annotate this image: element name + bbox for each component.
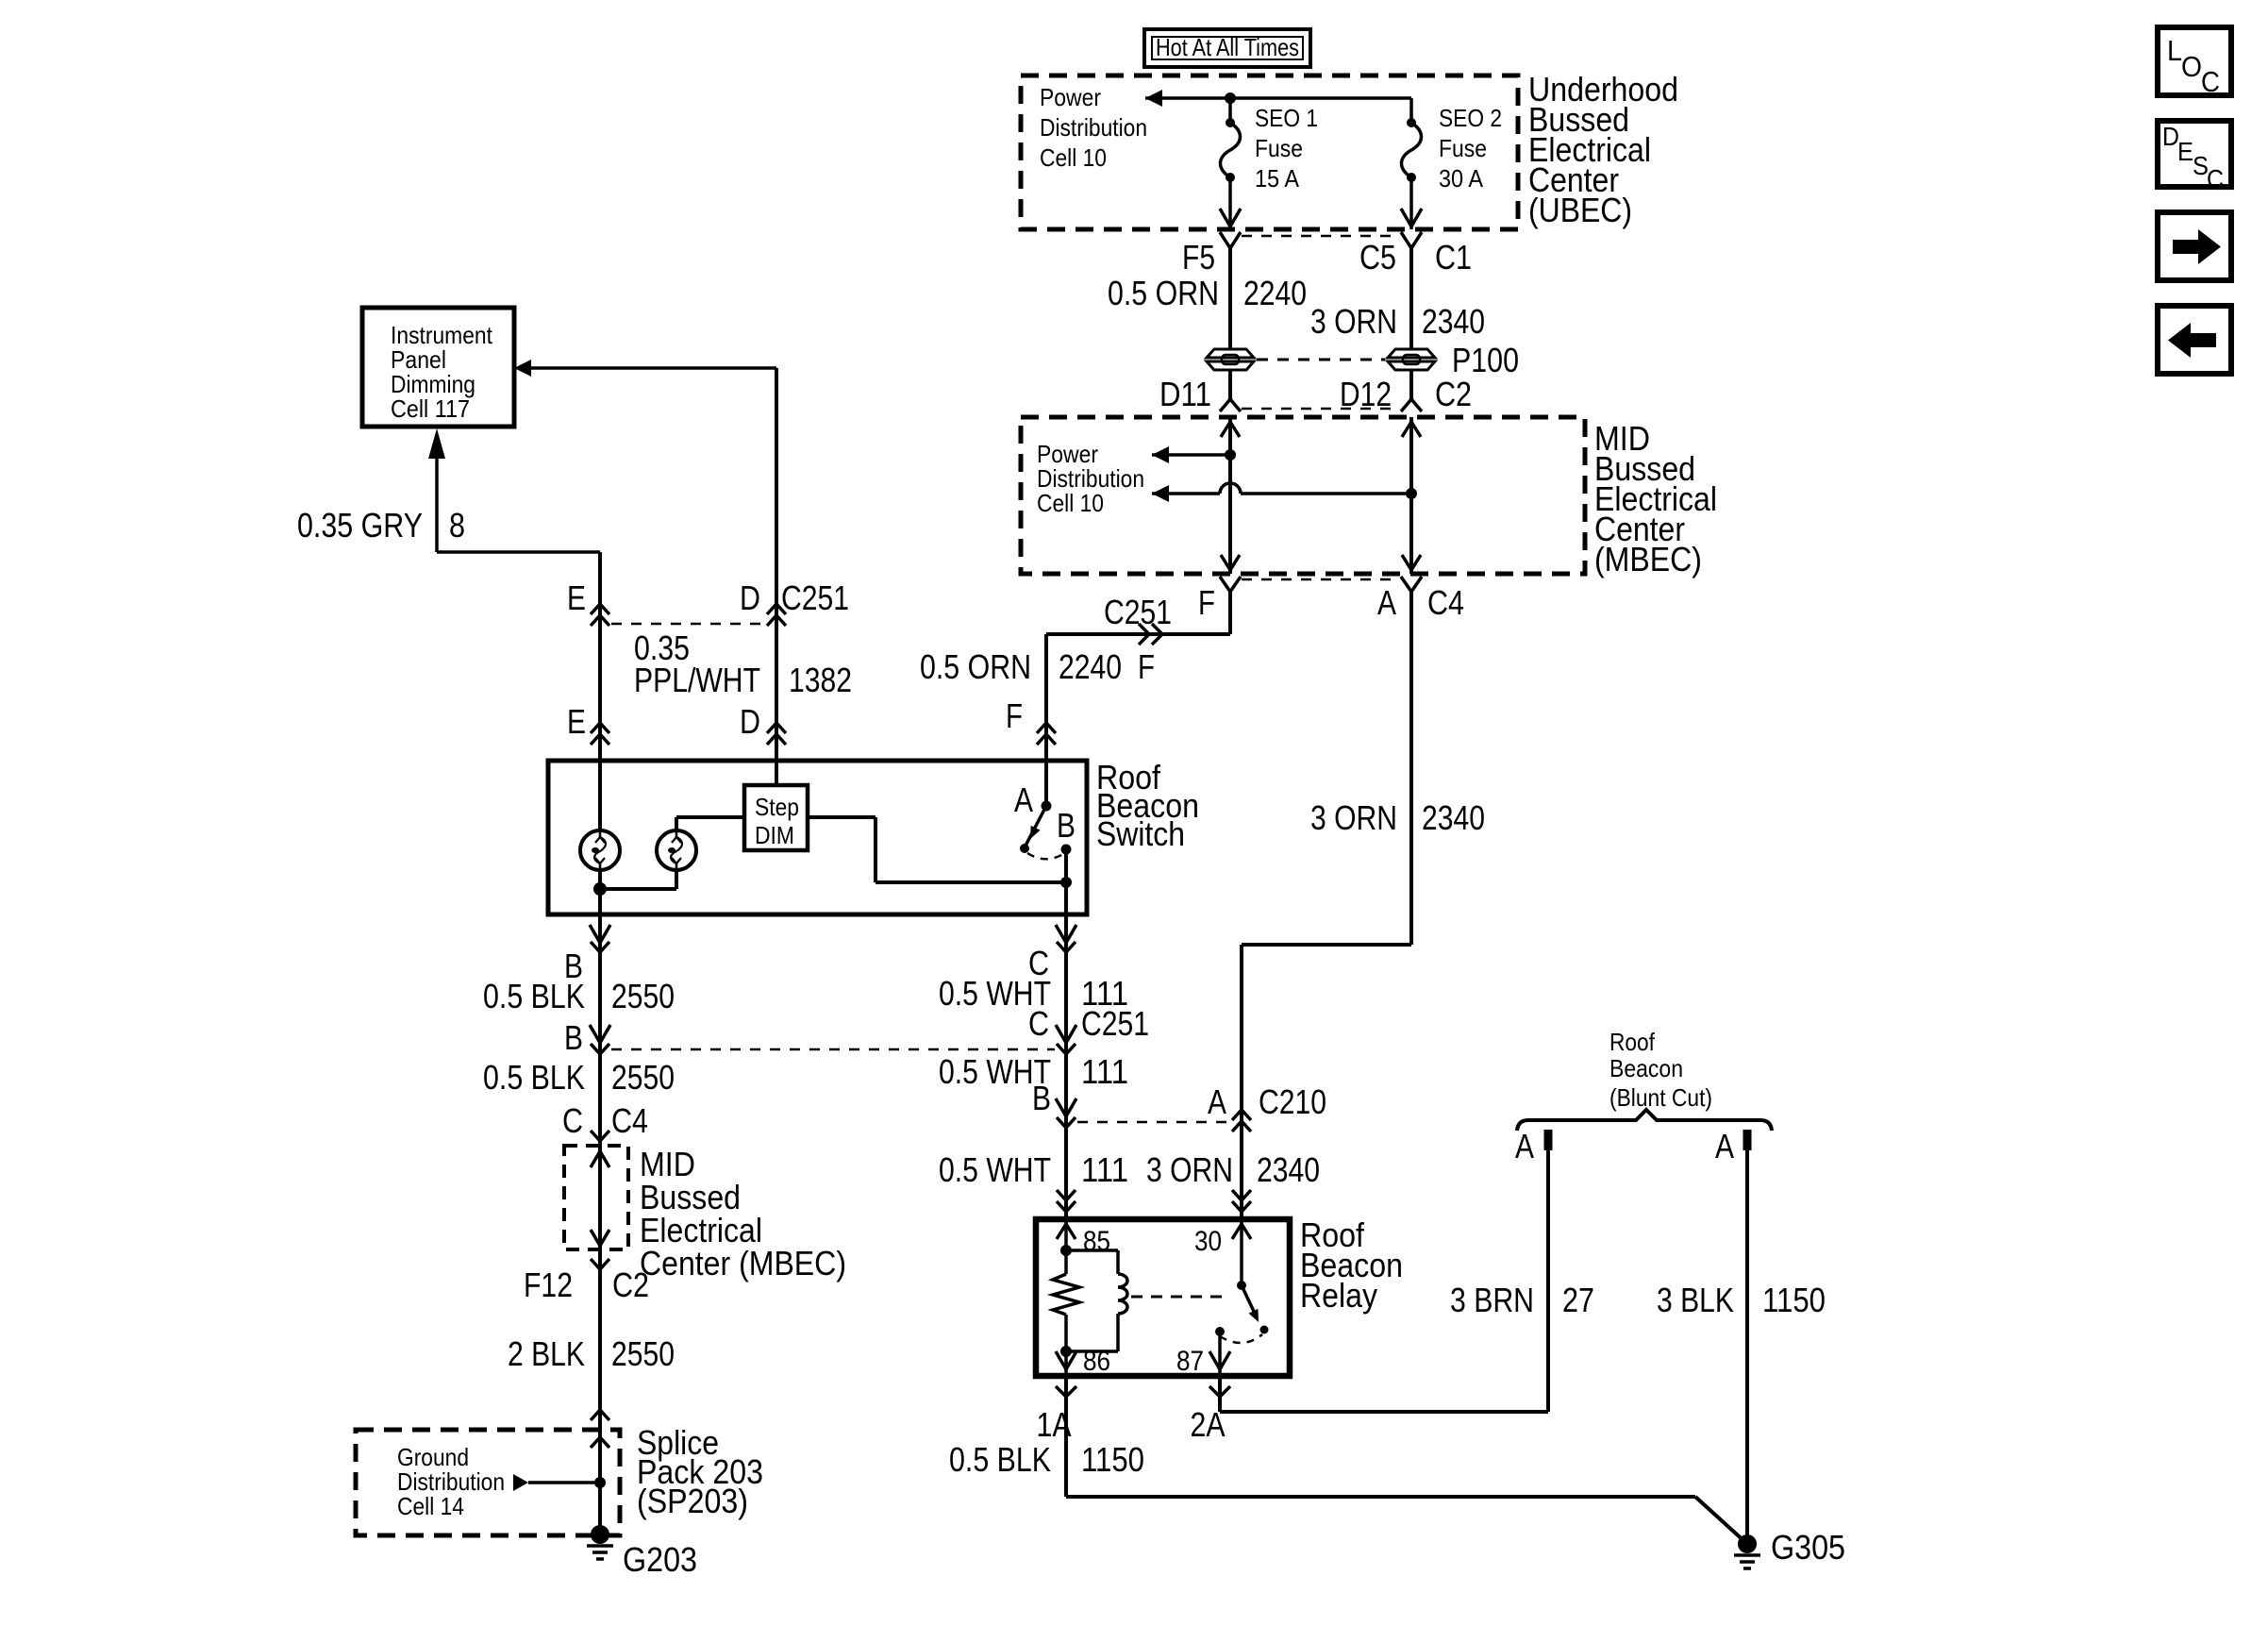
svg-text:1382: 1382 <box>789 661 852 699</box>
svg-text:3 BRN: 3 BRN <box>1450 1281 1534 1319</box>
svg-text:F5: F5 <box>1182 238 1215 277</box>
svg-text:0.5 BLK: 0.5 BLK <box>949 1440 1051 1479</box>
svg-text:Center (MBEC): Center (MBEC) <box>640 1244 846 1282</box>
svg-text:(MBEC): (MBEC) <box>1594 540 1702 578</box>
svg-text:A: A <box>1208 1082 1226 1121</box>
svg-text:3 BLK: 3 BLK <box>1657 1281 1734 1319</box>
svg-text:2340: 2340 <box>1257 1150 1320 1189</box>
svg-text:G305: G305 <box>1771 1528 1845 1567</box>
svg-text:C: C <box>2207 164 2224 193</box>
svg-text:2240: 2240 <box>1059 647 1122 686</box>
svg-text:L: L <box>2167 34 2182 67</box>
svg-text:2340: 2340 <box>1422 302 1485 341</box>
svg-text:Relay: Relay <box>1300 1276 1377 1315</box>
svg-text:C251: C251 <box>781 578 849 617</box>
svg-text:P100: P100 <box>1452 341 1519 379</box>
svg-text:0.35 GRY: 0.35 GRY <box>297 506 423 545</box>
svg-text:C4: C4 <box>611 1101 648 1140</box>
svg-text:C1: C1 <box>1435 238 1472 277</box>
svg-text:A: A <box>1014 780 1033 819</box>
svg-text:DIM: DIM <box>755 821 794 849</box>
svg-text:C210: C210 <box>1259 1082 1326 1121</box>
svg-text:Switch: Switch <box>1096 814 1185 853</box>
svg-text:C2: C2 <box>1435 375 1472 413</box>
svg-text:B: B <box>1057 806 1076 845</box>
svg-text:C: C <box>2201 65 2220 98</box>
svg-text:D11: D11 <box>1159 375 1211 413</box>
svg-text:A: A <box>1377 583 1396 622</box>
svg-text:111: 111 <box>1081 1052 1128 1091</box>
svg-text:B: B <box>564 1018 583 1057</box>
svg-text:G203: G203 <box>623 1540 697 1579</box>
svg-text:D: D <box>740 578 760 617</box>
svg-text:E: E <box>567 578 586 617</box>
svg-text:2550: 2550 <box>611 977 675 1015</box>
svg-text:(SP203): (SP203) <box>637 1482 748 1520</box>
svg-text:87: 87 <box>1176 1346 1204 1377</box>
svg-text:8: 8 <box>449 506 465 545</box>
svg-text:C5: C5 <box>1359 238 1396 277</box>
svg-text:3 ORN: 3 ORN <box>1310 302 1397 341</box>
svg-text:Fuse: Fuse <box>1439 134 1487 162</box>
svg-text:3 ORN: 3 ORN <box>1146 1150 1233 1189</box>
svg-text:PPL/WHT: PPL/WHT <box>634 661 760 699</box>
svg-text:Cell 10: Cell 10 <box>1037 489 1104 517</box>
svg-text:111: 111 <box>1081 1150 1128 1189</box>
svg-text:F: F <box>1138 647 1155 686</box>
svg-text:Distribution: Distribution <box>1040 113 1147 142</box>
svg-text:C4: C4 <box>1427 583 1464 622</box>
svg-text:15 A: 15 A <box>1255 164 1300 193</box>
svg-text:E: E <box>567 702 586 741</box>
svg-text:A: A <box>1515 1127 1534 1165</box>
svg-text:Step: Step <box>755 793 799 821</box>
svg-text:F: F <box>1006 696 1023 735</box>
svg-text:30 A: 30 A <box>1439 164 1484 193</box>
svg-text:Power: Power <box>1040 83 1101 111</box>
svg-text:(Blunt Cut): (Blunt Cut) <box>1609 1083 1712 1112</box>
svg-text:2 BLK: 2 BLK <box>508 1334 585 1373</box>
svg-text:SEO 2: SEO 2 <box>1439 104 1502 132</box>
svg-text:Beacon: Beacon <box>1609 1054 1683 1082</box>
svg-text:C: C <box>1028 1004 1049 1043</box>
svg-text:86: 86 <box>1083 1346 1110 1377</box>
svg-text:SEO 1: SEO 1 <box>1255 104 1318 132</box>
svg-text:(UBEC): (UBEC) <box>1528 191 1632 229</box>
svg-text:0.5 ORN: 0.5 ORN <box>920 647 1031 686</box>
svg-text:2340: 2340 <box>1422 798 1485 837</box>
svg-text:0.5 BLK: 0.5 BLK <box>483 1058 585 1097</box>
svg-text:2550: 2550 <box>611 1334 675 1373</box>
svg-text:B: B <box>1032 1079 1051 1117</box>
svg-text:Cell 14: Cell 14 <box>397 1492 464 1520</box>
svg-text:D: D <box>740 702 760 741</box>
svg-text:Roof: Roof <box>1609 1028 1656 1056</box>
svg-text:3 ORN: 3 ORN <box>1310 798 1397 837</box>
svg-text:E: E <box>2177 137 2193 166</box>
svg-text:85: 85 <box>1083 1226 1110 1257</box>
svg-text:C251: C251 <box>1104 593 1172 631</box>
svg-text:1150: 1150 <box>1081 1440 1144 1479</box>
svg-text:F: F <box>1198 583 1215 622</box>
svg-text:F12: F12 <box>524 1266 573 1304</box>
svg-text:2550: 2550 <box>611 1058 675 1097</box>
svg-text:0.5 ORN: 0.5 ORN <box>1108 274 1219 312</box>
svg-text:Fuse: Fuse <box>1255 134 1303 162</box>
svg-text:C2: C2 <box>612 1266 649 1304</box>
svg-text:Hot At All Times: Hot At All Times <box>1156 33 1299 61</box>
svg-text:O: O <box>2181 50 2202 83</box>
svg-text:1150: 1150 <box>1762 1281 1826 1319</box>
svg-text:30: 30 <box>1194 1226 1222 1257</box>
svg-text:C: C <box>562 1101 583 1140</box>
svg-text:C251: C251 <box>1081 1004 1149 1043</box>
svg-text:0.5 BLK: 0.5 BLK <box>483 977 585 1015</box>
svg-text:27: 27 <box>1562 1281 1594 1319</box>
svg-text:2240: 2240 <box>1243 274 1307 312</box>
svg-text:Cell 117: Cell 117 <box>391 394 470 423</box>
svg-text:Cell 10: Cell 10 <box>1040 143 1107 172</box>
svg-text:A: A <box>1715 1127 1734 1165</box>
svg-text:0.5 WHT: 0.5 WHT <box>939 1150 1051 1189</box>
